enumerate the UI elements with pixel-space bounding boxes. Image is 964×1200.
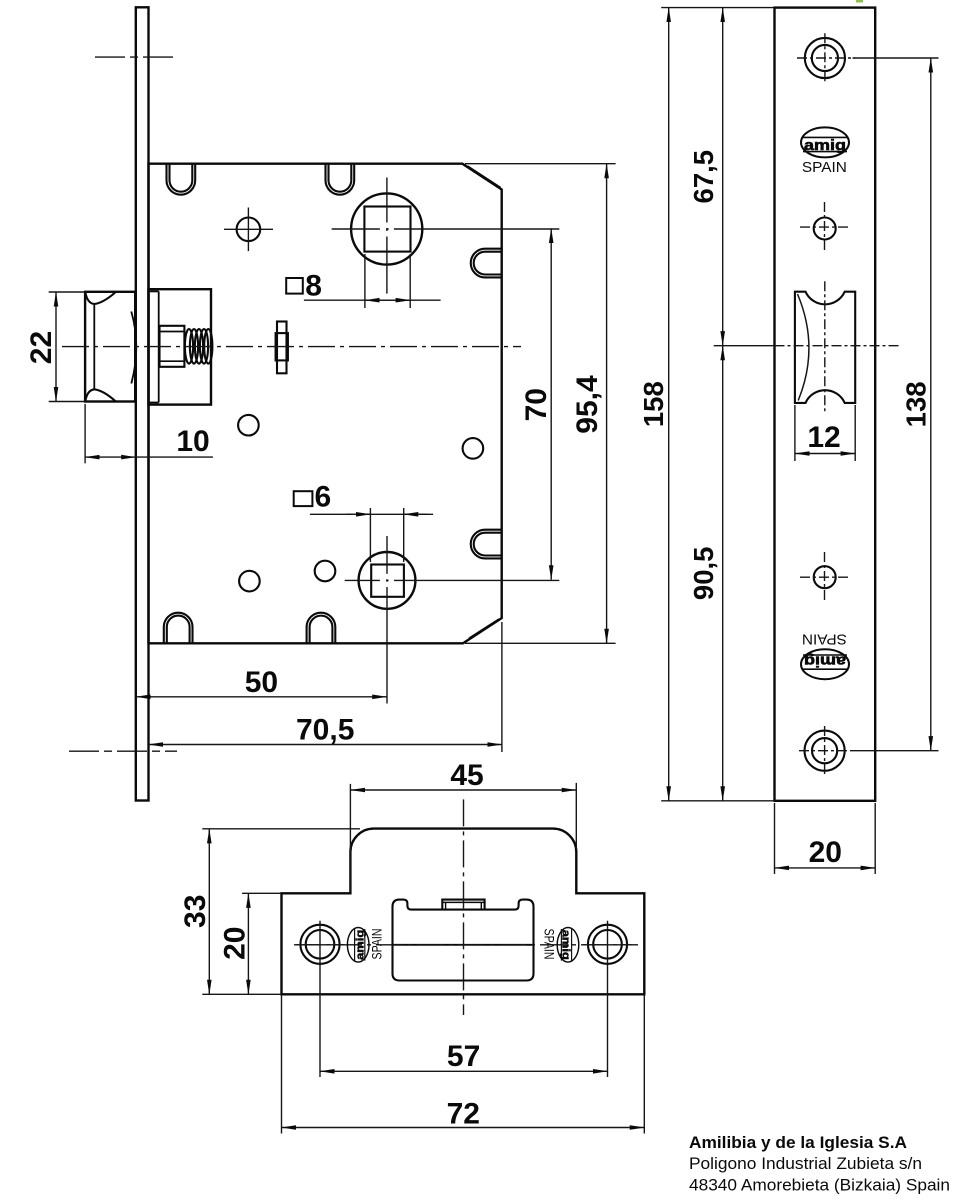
dim 70,5 <box>501 622 503 752</box>
plain hole C <box>315 561 336 582</box>
svg-text:72: 72 <box>447 1097 480 1130</box>
dim 50 <box>136 696 387 698</box>
faceplate outline <box>775 8 876 801</box>
latch bolt head <box>85 292 135 402</box>
strike box mid line <box>393 944 534 946</box>
strike box tab <box>442 900 484 910</box>
svg-text:33: 33 <box>179 895 212 928</box>
faceplate strip edge view <box>136 7 149 800</box>
dim 20 right view <box>774 803 776 874</box>
right edge screw slot lower <box>471 530 502 559</box>
dim 20 strike <box>242 892 281 894</box>
svg-text:10: 10 <box>176 425 209 458</box>
top screw slot 2 <box>326 164 355 195</box>
svg-text:SPAIN: SPAIN <box>802 159 847 176</box>
svg-text:90,5: 90,5 <box>688 547 719 601</box>
latch tail block <box>149 289 212 404</box>
svg-text:8: 8 <box>305 270 322 303</box>
svg-text:12: 12 <box>807 421 840 454</box>
main horizontal centerline <box>62 346 521 348</box>
svg-text:158: 158 <box>638 381 669 427</box>
dim 45 <box>349 784 351 892</box>
dim 10 <box>84 404 86 463</box>
strike right amig logo <box>557 928 579 963</box>
top follower vertical centerline <box>386 178 388 294</box>
bottom follower horizontal centerline <box>345 579 560 581</box>
svg-text:SPAIN: SPAIN <box>802 631 847 648</box>
latch spring <box>185 329 193 364</box>
dim 22 <box>49 291 85 293</box>
dim square 8 <box>286 278 303 294</box>
bottom follower vertical centerline <box>386 536 388 704</box>
bottom screw slot 1 <box>164 613 193 644</box>
dim square 6 <box>294 491 313 506</box>
latch spindle <box>160 326 185 367</box>
top follower (handle hub) circle <box>351 193 422 264</box>
svg-text:67,5: 67,5 <box>688 150 719 204</box>
svg-text:20: 20 <box>809 836 842 869</box>
small hole with crosshair <box>237 218 261 242</box>
svg-text:6: 6 <box>315 481 332 514</box>
top amig logo <box>801 127 849 157</box>
plain hole D <box>239 571 260 592</box>
top chamfer second line <box>468 166 501 188</box>
bottom follower circle <box>359 552 416 609</box>
strike latch box <box>393 900 534 981</box>
svg-text:50: 50 <box>245 666 278 699</box>
dim 90,5 <box>722 346 724 801</box>
svg-text:57: 57 <box>447 1040 480 1073</box>
strike left amig logo <box>347 928 369 963</box>
svg-text:20: 20 <box>219 927 252 960</box>
bottom screw slot 2 <box>307 613 336 644</box>
dim 67,5 <box>722 8 724 346</box>
stop pin <box>277 322 287 374</box>
top screw slot 1 <box>167 164 196 195</box>
svg-text:SPAIN: SPAIN <box>369 929 385 960</box>
dim 33 <box>202 828 360 830</box>
plain hole A <box>238 415 259 436</box>
strip top centerline tick <box>95 56 178 58</box>
svg-text:SPAIN: SPAIN <box>542 929 558 960</box>
strike vertical centerline <box>463 799 465 1015</box>
dim 72 <box>281 994 283 1133</box>
top follower horizontal centerline <box>332 228 560 230</box>
svg-text:Amilibia y de la Iglesia S.A: Amilibia y de la Iglesia S.A <box>689 1134 907 1152</box>
bottom amig logo (rotated) <box>801 649 849 679</box>
dim 70 <box>550 228 552 579</box>
svg-text:95,4: 95,4 <box>571 375 604 434</box>
strike left screw hole <box>300 925 339 964</box>
strip bottom centerline tick <box>69 750 177 752</box>
dim 57 <box>320 1070 608 1072</box>
small hole bottom <box>814 566 836 588</box>
strike horizontal centerline <box>294 944 638 946</box>
right edge screw slot upper <box>471 249 502 278</box>
small hole top <box>814 218 836 240</box>
svg-text:22: 22 <box>25 331 58 364</box>
strike right screw hole <box>588 925 627 964</box>
bottom follower square hole <box>371 565 404 597</box>
svg-text:Poligono Industrial Zubieta s/: Poligono Industrial Zubieta s/n <box>689 1155 922 1173</box>
top screw hole <box>805 38 845 78</box>
latch cutout <box>795 292 855 403</box>
dim 95,4 <box>465 163 616 165</box>
plain hole B <box>463 438 484 459</box>
svg-text:45: 45 <box>450 759 483 792</box>
svg-text:138: 138 <box>900 381 931 427</box>
lock case outline with chamfered corners <box>149 164 502 644</box>
green speck <box>856 0 863 3</box>
bottom chamfer second line <box>469 619 499 638</box>
dim 12 <box>794 405 796 461</box>
svg-text:70: 70 <box>520 388 553 421</box>
dim 138 <box>853 57 939 59</box>
svg-text:70,5: 70,5 <box>296 714 354 747</box>
bottom screw hole <box>805 731 845 771</box>
strike plate outline <box>282 829 645 995</box>
dim 158 <box>661 7 774 9</box>
svg-text:48340 Amorebieta (Bizkaia) Spa: 48340 Amorebieta (Bizkaia) Spain <box>689 1177 950 1195</box>
top follower square spindle hole <box>364 207 410 252</box>
